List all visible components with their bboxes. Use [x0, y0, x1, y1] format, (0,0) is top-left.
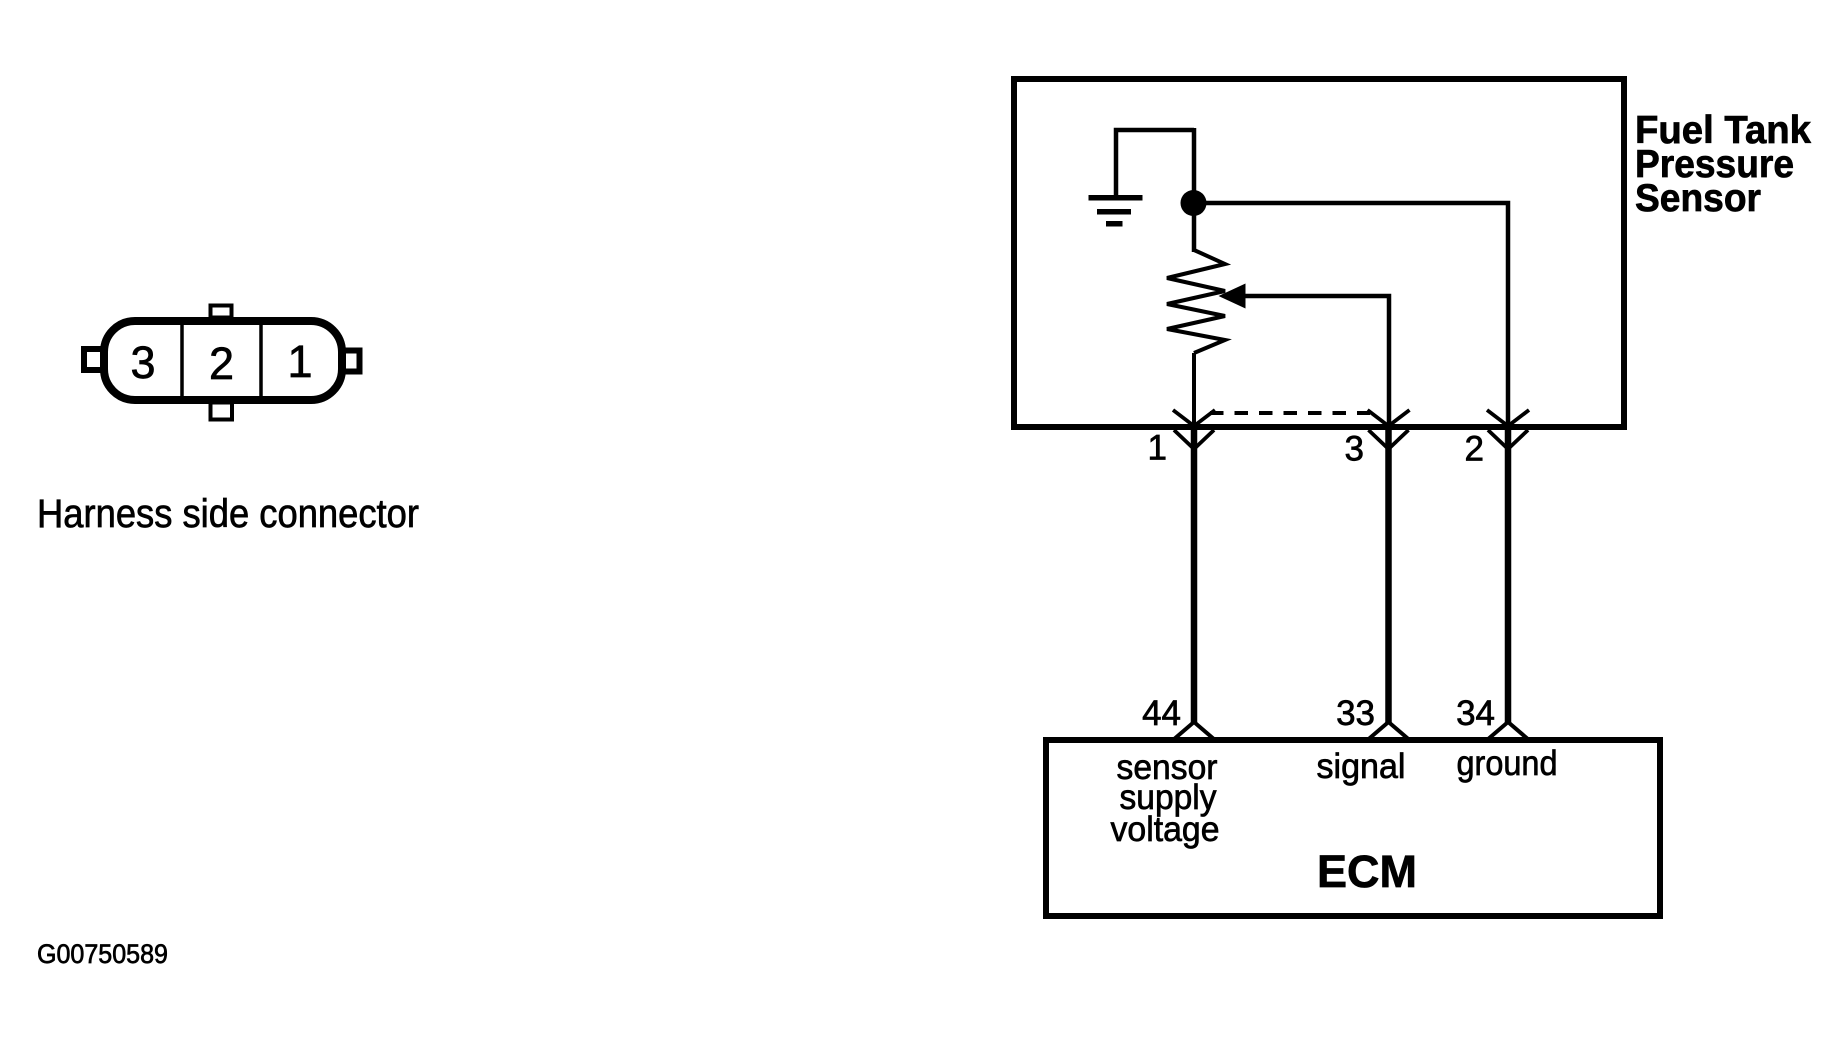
wire resistor to pin 1	[1192, 353, 1196, 427]
ECM box	[1046, 740, 1660, 916]
svg-text:Harness side connector: Harness side connector	[37, 492, 419, 536]
svg-text:2: 2	[1465, 430, 1484, 469]
resistor R (potentiometer element)	[1167, 250, 1225, 353]
connector top tab	[211, 306, 232, 318]
connector divider 3/2	[180, 321, 184, 400]
svg-text:ground: ground	[1457, 744, 1558, 783]
dashed case line	[1210, 411, 1370, 415]
wire node to pin 2	[1194, 203, 1508, 427]
svg-text:2: 2	[209, 338, 234, 389]
ECM pin 33 entry	[1368, 722, 1410, 740]
svg-text:34: 34	[1456, 694, 1495, 733]
svg-text:33: 33	[1336, 694, 1375, 733]
pin 2 connector chevrons	[1487, 410, 1529, 449]
wiper arrowhead	[1219, 284, 1246, 309]
svg-text:Sensor: Sensor	[1635, 177, 1761, 220]
svg-text:3: 3	[130, 337, 155, 388]
wire pin3 to ECM 33	[1385, 427, 1392, 723]
svg-text:1: 1	[1148, 429, 1167, 468]
node junction dot	[1181, 190, 1207, 216]
wire ground loop	[1116, 130, 1194, 195]
wire pin1 to ECM 44	[1191, 427, 1198, 723]
svg-text:voltage: voltage	[1111, 810, 1220, 849]
wire pin2 to ECM 34	[1505, 427, 1512, 723]
connector bottom tab	[211, 403, 233, 420]
connector right tab	[344, 351, 360, 372]
svg-text:1: 1	[287, 336, 312, 387]
svg-text:G00750589: G00750589	[37, 939, 168, 969]
svg-text:3: 3	[1345, 430, 1364, 469]
svg-text:ECM: ECM	[1317, 846, 1417, 897]
connector body outline	[104, 321, 342, 400]
ECM pin 34 entry	[1487, 722, 1529, 740]
svg-text:44: 44	[1142, 694, 1181, 733]
connector divider 2/1	[259, 321, 263, 400]
wire node to resistor	[1192, 128, 1197, 252]
wire wiper to pin 3	[1244, 296, 1389, 427]
pin 1 connector chevrons	[1173, 410, 1215, 449]
svg-text:signal: signal	[1317, 747, 1406, 786]
ECM pin 44 entry	[1173, 722, 1215, 740]
connector left tab	[84, 349, 106, 370]
pin 3 connector chevrons	[1368, 410, 1410, 449]
ground symbol	[1089, 195, 1143, 227]
connector J1 harness side	[84, 306, 360, 420]
sensor box Fuel Tank Pressure Sensor	[1014, 79, 1624, 427]
